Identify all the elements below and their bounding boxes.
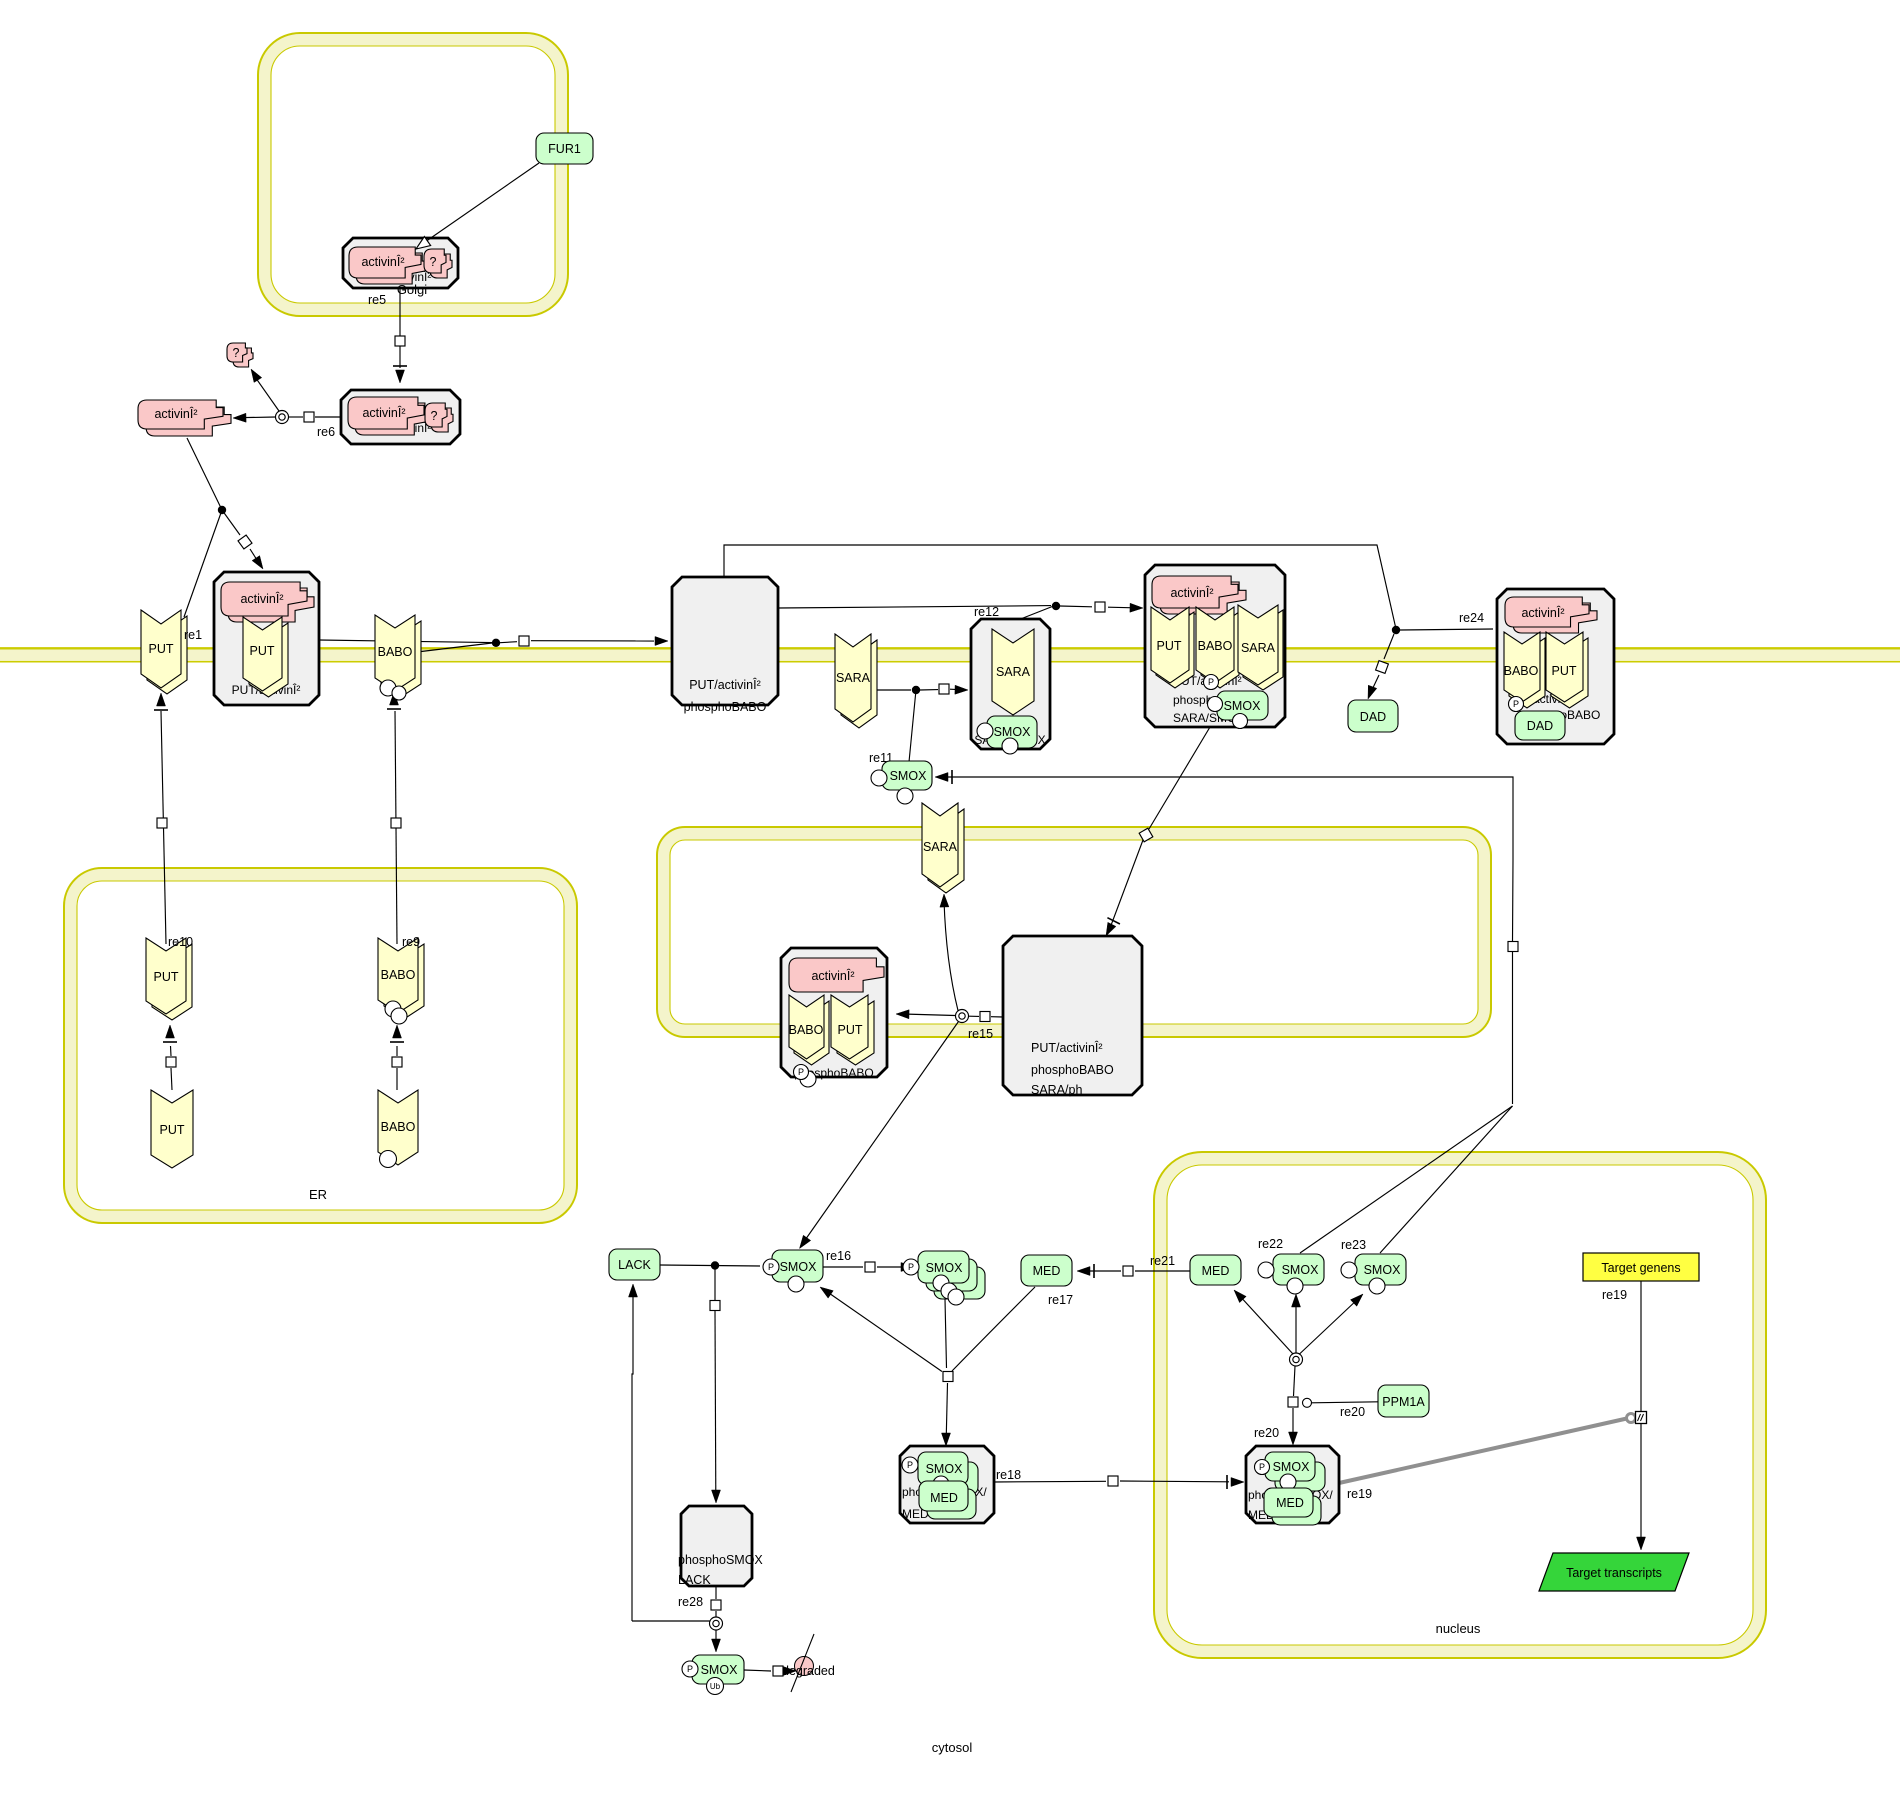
svg-text:PUT/activinÎ²: PUT/activinÎ² <box>1031 1040 1103 1055</box>
svg-text:BABO: BABO <box>789 1023 824 1037</box>
svg-text:P: P <box>768 1262 774 1272</box>
reaction re20 <box>1234 1290 1378 1445</box>
svg-text:activinÎ²: activinÎ² <box>811 968 854 983</box>
svg-text:SARA: SARA <box>1241 641 1276 655</box>
svg-text:PUT: PUT <box>154 970 179 984</box>
receptor BABO (ER lower) <box>378 1090 418 1168</box>
receptor PUT (membrane) <box>141 610 187 694</box>
svg-text:Ub: Ub <box>710 1682 721 1691</box>
protein SMOX (nucleus re23) <box>1341 1254 1406 1294</box>
reaction re5 transport line <box>368 288 407 383</box>
svg-text:MED: MED <box>930 1491 958 1505</box>
svg-text:SARA: SARA <box>923 840 958 854</box>
svg-text:FUR1: FUR1 <box>548 142 581 156</box>
svg-text:re20: re20 <box>1254 1426 1279 1440</box>
complex phosphoSMOX/MED (nucleus) <box>1246 1446 1339 1525</box>
svg-text:activinÎ²: activinÎ² <box>361 254 404 269</box>
svg-text:DAD: DAD <box>1360 710 1386 724</box>
svg-text:re28: re28 <box>678 1595 703 1609</box>
complex PUT/activin phosphoBABO <box>672 577 778 714</box>
svg-text:activinÎ²: activinÎ² <box>1521 605 1564 620</box>
svg-text:cytosol: cytosol <box>932 1740 973 1755</box>
protein MED (nucleus) <box>1190 1255 1241 1285</box>
svg-text:PUT: PUT <box>1157 639 1182 653</box>
trigger gray line re19 <box>1339 1412 1647 1502</box>
complex PUT/activin phospho SARA/SMOX <box>1145 565 1285 729</box>
svg-text:re16: re16 <box>826 1249 851 1263</box>
svg-text:re22: re22 <box>1258 1237 1283 1251</box>
reaction re28 <box>629 1284 723 1652</box>
svg-text:re6: re6 <box>317 425 335 439</box>
reaction re1 <box>184 438 263 617</box>
reaction re22 re23 transport lines <box>935 770 1518 1253</box>
svg-text:LACK: LACK <box>618 1258 651 1272</box>
transport line ER BABO to membrane BABO <box>387 692 401 944</box>
protein PPM1A <box>1378 1385 1429 1417</box>
svg-text:SMOX: SMOX <box>994 725 1031 739</box>
protein activin dimer <box>138 400 231 436</box>
reaction re9 transport <box>390 1025 404 1090</box>
svg-text:SMOX: SMOX <box>1273 1460 1310 1474</box>
svg-text:P: P <box>907 1460 913 1470</box>
svg-text:phosphoBABO: phosphoBABO <box>684 700 767 714</box>
svg-text:Target transcripts: Target transcripts <box>1566 1566 1662 1580</box>
svg-text:BABO: BABO <box>1198 639 1233 653</box>
complex pro-activin (Golgi) <box>343 238 458 288</box>
svg-text:re17: re17 <box>1048 1293 1073 1307</box>
receptor SARA (endosome) <box>922 803 964 893</box>
svg-text:MED: MED <box>1033 1264 1061 1278</box>
svg-text:SMOX: SMOX <box>1282 1263 1319 1277</box>
svg-text:?: ? <box>233 346 240 360</box>
transport line complex to endosome <box>1106 727 1210 936</box>
label re10 <box>168 935 193 949</box>
receptor SARA (membrane) <box>835 634 877 728</box>
svg-text:PUT/activinÎ²: PUT/activinÎ² <box>689 677 761 692</box>
svg-text:activinÎ²: activinÎ² <box>362 405 405 420</box>
protein FUR1 <box>536 133 593 164</box>
svg-text:BABO: BABO <box>378 645 413 659</box>
svg-text:phosphoBABO: phosphoBABO <box>1031 1063 1114 1077</box>
svg-text:SARA: SARA <box>836 671 871 685</box>
svg-text:SMOX: SMOX <box>926 1261 963 1275</box>
label ER <box>309 1187 327 1202</box>
svg-text:BABO: BABO <box>381 1120 416 1134</box>
protein phosphoSMOX trimer <box>903 1251 985 1305</box>
complex PUT/activin phosphoBABO SARA/ph (endosome) <box>1003 936 1142 1097</box>
svg-text:SARA/ph: SARA/ph <box>1031 1083 1082 1097</box>
svg-text:re12: re12 <box>974 605 999 619</box>
protein MED (cytosol) <box>1021 1255 1072 1286</box>
compartment ER <box>64 868 577 1223</box>
complex activin/BABO/PUT/DAD <box>1497 589 1614 744</box>
svg-text:SMOX: SMOX <box>1224 699 1261 713</box>
protein SMOX P Ub <box>682 1655 744 1695</box>
catalysis line FUR1 <box>416 163 539 249</box>
reaction re6 <box>233 369 341 439</box>
label re9 <box>402 935 420 949</box>
svg-text:activinÎ²: activinÎ² <box>1170 585 1213 600</box>
membrane cytosol boundary <box>0 648 1900 661</box>
svg-text:SMOX: SMOX <box>780 1260 817 1274</box>
svg-text:SMOX: SMOX <box>926 1462 963 1476</box>
svg-text:PUT: PUT <box>149 642 174 656</box>
svg-text:PPM1A: PPM1A <box>1382 1395 1425 1409</box>
reaction re11 <box>869 684 968 765</box>
svg-text:P: P <box>1259 1462 1265 1472</box>
complex phosphoSMOX/MED (cytosol) <box>900 1446 994 1523</box>
svg-text:SMOX: SMOX <box>1364 1263 1401 1277</box>
svg-text:re15: re15 <box>968 1027 993 1041</box>
svg-text:re10: re10 <box>168 935 193 949</box>
svg-text:re20: re20 <box>1340 1405 1365 1419</box>
reaction re15 <box>800 894 1004 1249</box>
svg-text:Target genens: Target genens <box>1601 1261 1680 1275</box>
receptor PUT (ER upper) <box>146 938 192 1020</box>
svg-text:?: ? <box>430 255 437 269</box>
complex phosphoSMOX/LACK <box>678 1506 763 1587</box>
svg-text:?: ? <box>431 409 438 423</box>
reaction re17 <box>820 1287 1073 1446</box>
receptor PUT (ER lower) <box>151 1090 193 1168</box>
complex SARA/SMOX <box>971 619 1050 754</box>
svg-text:PUT: PUT <box>1552 664 1577 678</box>
svg-text:BABO: BABO <box>381 968 416 982</box>
svg-text:activinÎ²: activinÎ² <box>240 591 283 606</box>
reaction degradation <box>744 1666 796 1676</box>
svg-text:re1: re1 <box>184 628 202 642</box>
svg-text:PUT: PUT <box>838 1023 863 1037</box>
protein phosphoSMOX <box>763 1250 823 1292</box>
label re1 <box>184 628 202 642</box>
protein SMOX (nucleus re22) <box>1258 1254 1324 1294</box>
protein DAD (cytosol) <box>1348 700 1398 732</box>
degraded symbol <box>782 1634 835 1692</box>
svg-text:degraded: degraded <box>782 1664 835 1678</box>
svg-text:P: P <box>908 1262 914 1272</box>
svg-text:phosphoSMOX: phosphoSMOX <box>678 1553 763 1567</box>
label cytosol <box>932 1740 973 1755</box>
label re22 <box>1258 1237 1283 1251</box>
svg-text:P: P <box>687 1664 693 1674</box>
reaction association to PUT/activin/phosphoBABO <box>319 636 668 652</box>
svg-text:SMOX: SMOX <box>890 769 927 783</box>
svg-text:Golgi: Golgi <box>397 282 427 297</box>
reaction re18 <box>993 1468 1244 1489</box>
protein LACK <box>609 1249 660 1280</box>
svg-text:P: P <box>1208 677 1214 687</box>
svg-text:PUT: PUT <box>160 1123 185 1137</box>
receptor BABO (ER upper) <box>378 938 424 1024</box>
svg-text:re9: re9 <box>402 935 420 949</box>
protein ? fragment <box>227 343 253 367</box>
gene Target genens <box>1583 1253 1699 1281</box>
label Golgi <box>397 282 427 297</box>
compartment nucleus <box>1154 1152 1766 1658</box>
protein SMOX (cytosol) <box>871 761 932 804</box>
svg-text:SMOX: SMOX <box>701 1663 738 1677</box>
receptor BABO (membrane) <box>375 615 421 700</box>
svg-text:DAD: DAD <box>1527 719 1553 733</box>
reaction re21 <box>1077 1254 1190 1278</box>
label re23 <box>1341 1238 1366 1252</box>
reaction re10 transport <box>163 1025 177 1090</box>
svg-text:P: P <box>798 1067 804 1077</box>
transport line ER PUT to membrane PUT <box>154 693 168 944</box>
complex pro-activin (cytosol) <box>341 390 460 444</box>
svg-text:PUT: PUT <box>250 644 275 658</box>
svg-text:re23: re23 <box>1341 1238 1366 1252</box>
svg-text:BABO: BABO <box>1504 664 1539 678</box>
complex PUT/activin <box>214 572 319 705</box>
svg-text:activinÎ²: activinÎ² <box>154 406 197 421</box>
RNA Target transcripts <box>1539 1553 1689 1591</box>
reaction re12 <box>778 602 1143 620</box>
svg-text:nucleus: nucleus <box>1436 1621 1481 1636</box>
svg-text:re21: re21 <box>1150 1254 1175 1268</box>
svg-text:MED: MED <box>1276 1496 1304 1510</box>
svg-text:SARA: SARA <box>996 665 1031 679</box>
reaction re24 <box>724 545 1493 699</box>
reaction re16 <box>823 1249 914 1272</box>
svg-text:re5: re5 <box>368 293 386 307</box>
complex activin/BABO/PUT phosphoBABO (endosome) <box>781 948 887 1087</box>
reaction re19 <box>1602 1281 1646 1550</box>
svg-text:re19: re19 <box>1347 1487 1372 1501</box>
reaction LACK association <box>660 1261 760 1503</box>
svg-text:ER: ER <box>309 1187 327 1202</box>
svg-text:re24: re24 <box>1459 611 1484 625</box>
svg-text:LACK: LACK <box>678 1573 711 1587</box>
svg-text:re18: re18 <box>996 1468 1021 1482</box>
compartment Golgi <box>258 33 568 316</box>
compartment endosome <box>657 827 1491 1037</box>
label nucleus <box>1436 1621 1481 1636</box>
svg-text:P: P <box>1513 699 1519 709</box>
svg-text:MED: MED <box>1202 1264 1230 1278</box>
svg-text:re19: re19 <box>1602 1288 1627 1302</box>
